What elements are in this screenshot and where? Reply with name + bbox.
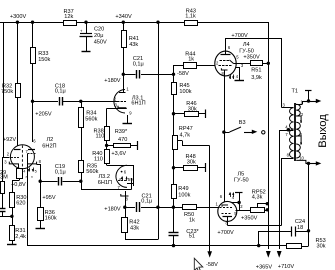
svg-text:+710V: +710V <box>278 264 295 270</box>
svg-text:R31: R31 <box>15 228 25 234</box>
svg-text:+700V: +700V <box>217 230 234 236</box>
svg-text:R39*: R39* <box>115 129 128 135</box>
svg-text:+340V: +340V <box>115 14 132 20</box>
svg-text:150k: 150k <box>38 57 50 63</box>
svg-text:100k: 100k <box>179 89 191 95</box>
svg-text:R42: R42 <box>129 219 139 225</box>
svg-text:100k: 100k <box>178 193 190 199</box>
svg-text:B3: B3 <box>239 120 246 126</box>
svg-text:560k: 560k <box>85 116 97 122</box>
svg-text:RP47: RP47 <box>179 126 193 132</box>
svg-text:0,1μ: 0,1μ <box>141 198 152 204</box>
svg-text:Л5: Л5 <box>238 171 245 177</box>
svg-text:5: 5 <box>35 169 37 173</box>
svg-text:6Н2П: 6Н2П <box>42 144 56 150</box>
svg-text:C20: C20 <box>94 26 104 32</box>
svg-text:Л4: Л4 <box>243 42 250 48</box>
svg-text:2,4k: 2,4k <box>15 234 26 240</box>
svg-text:+350V: +350V <box>241 216 258 222</box>
svg-text:1k: 1k <box>188 57 194 63</box>
svg-text:-58V: -58V <box>177 71 189 77</box>
svg-text:+300V: +300V <box>10 14 27 20</box>
svg-text:+95V: +95V <box>42 195 55 201</box>
svg-text:43k: 43k <box>130 225 139 231</box>
svg-text:20μ: 20μ <box>94 33 103 39</box>
svg-text:R49: R49 <box>178 186 188 192</box>
svg-text:+350V: +350V <box>243 55 260 61</box>
svg-text:12k: 12k <box>64 14 73 20</box>
svg-text:Л2: Л2 <box>47 137 54 143</box>
svg-text:30k: 30k <box>187 160 196 166</box>
svg-text:620: 620 <box>16 201 25 207</box>
svg-text:560k: 560k <box>86 169 98 175</box>
svg-text:51: 51 <box>189 234 195 240</box>
svg-text:4,3k: 4,3k <box>252 194 263 200</box>
svg-text:30k: 30k <box>188 106 197 112</box>
svg-text:470: 470 <box>118 137 127 143</box>
svg-text:110: 110 <box>94 156 103 162</box>
svg-text:+700V: +700V <box>231 33 248 39</box>
svg-text:3M: 3M <box>0 174 8 180</box>
svg-text:750k: 750k <box>1 89 13 95</box>
svg-text:+180V: +180V <box>104 78 121 84</box>
svg-text:1k: 1k <box>189 217 195 223</box>
svg-text:ГУ-50: ГУ-50 <box>239 48 254 54</box>
svg-text:6Н1П: 6Н1П <box>98 180 112 186</box>
svg-text:+365V: +365V <box>256 265 273 270</box>
svg-text:0,1μ: 0,1μ <box>55 89 66 95</box>
svg-text:110: 110 <box>96 134 105 140</box>
svg-text:450V: 450V <box>94 39 107 45</box>
svg-text:160k: 160k <box>45 215 57 221</box>
svg-text:+3,6V: +3,6V <box>111 151 126 157</box>
svg-text:3,9k: 3,9k <box>251 75 262 81</box>
svg-text:0,1μ: 0,1μ <box>55 170 66 176</box>
svg-text:18: 18 <box>297 225 303 231</box>
svg-text:10: 10 <box>299 155 304 160</box>
svg-text:43k: 43k <box>129 42 138 48</box>
svg-text:6Н1П: 6Н1П <box>131 100 145 106</box>
svg-text:+0,8V: +0,8V <box>11 182 26 188</box>
svg-text:4: 4 <box>23 169 25 173</box>
svg-text:1,1k: 1,1k <box>185 14 196 20</box>
svg-text:30k: 30k <box>317 243 326 249</box>
svg-text:+180V: +180V <box>104 207 121 213</box>
svg-text:ГУ-50: ГУ-50 <box>234 177 249 183</box>
svg-text:R45: R45 <box>179 83 189 89</box>
svg-text:0,1μ: 0,1μ <box>133 61 144 67</box>
svg-text:+205V: +205V <box>35 111 52 117</box>
svg-text:T1: T1 <box>292 88 299 94</box>
svg-text:4,7k: 4,7k <box>180 132 191 138</box>
svg-text:-58V: -58V <box>206 262 218 268</box>
svg-text:R51: R51 <box>251 68 261 74</box>
svg-text:+92V: +92V <box>3 137 16 143</box>
svg-text:Выход: Выход <box>317 114 329 148</box>
